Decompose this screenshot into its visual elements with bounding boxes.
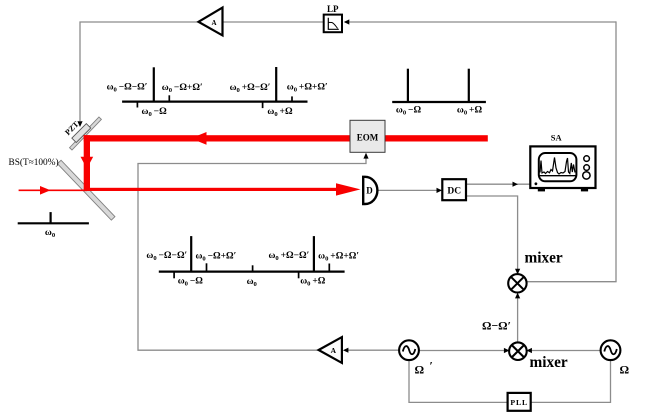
wire: DC output to spectrum analyzer SA [466,182,530,187]
wire: LP output to amplifier A1 [223,21,324,23]
wire: detector D output to DC box [378,188,442,193]
svg-text:ω0 −Ω: ω0 −Ω [178,276,204,287]
detector D (photodiode) [363,177,377,204]
wire: oscillator Omega-prime to mixer M2 left input [419,348,509,353]
beam: laser input thin red beam with arrow [19,186,87,195]
svg-text:mixer: mixer [530,354,568,371]
wire: amplifier A1 output to PZT (left and down) [77,22,198,127]
spectrum analyzer SA [530,133,595,192]
wire: oscillator Omega-prime down to PLL [409,360,507,402]
wire: mixer M1 output to right riser [526,281,617,283]
low-pass filter LP [324,4,342,32]
spectrum B (top-middle, two lines omega0 +/- Omega) [392,69,486,102]
svg-text:BS(T≈100%): BS(T≈100%) [9,157,59,168]
oscillator Omega-prime [399,340,419,360]
wire: PLL to oscillator Omega [531,360,611,402]
svg-text:ω0 −Ω+Ω′: ω0 −Ω+Ω′ [162,83,203,94]
wire: mixer M2 output up to mixer M1 LO input [515,293,520,343]
svg-text:ω0 −Ω+Ω′: ω0 −Ω+Ω′ [195,252,236,263]
mixer M2 (lower) [509,342,527,360]
svg-text:ω0 −Ω: ω0 −Ω [142,107,168,118]
amplifier A1 (top) [199,8,223,36]
wire: right riser from mixer M1 output up to top [615,21,617,281]
svg-text:ω0 +Ω: ω0 +Ω [300,276,326,287]
svg-text:ω0 −Ω−Ω′: ω0 −Ω−Ω′ [146,251,187,262]
DC block box [442,179,466,200]
svg-text:EOM: EOM [357,133,379,143]
svg-text:mixer: mixer [525,249,563,266]
wire: oscillator Omega-prime to amplifier A2 input [343,348,399,353]
svg-text:ω0 −Ω: ω0 −Ω [396,105,422,116]
mixer M1 (upper) [508,274,526,292]
spectrum C (middle, full sideband picture) [159,236,345,278]
svg-text:ω0: ω0 [45,228,56,239]
oscillator Omega [601,340,621,360]
svg-text:ω0 +Ω+Ω′: ω0 +Ω+Ω′ [318,252,359,263]
svg-text:SA: SA [551,133,563,143]
svg-text:D: D [366,186,373,196]
wire: feedback top horizontal from right riser to LP [344,19,616,24]
wire: DC output down to mixer M1 RF input [466,196,520,275]
svg-text:ω0 −Ω−Ω′: ω0 −Ω−Ω′ [107,83,148,94]
svg-text:PLL: PLL [510,398,528,407]
beam: thick red top beam through EOM with left arrow [84,132,488,145]
svg-text:Ω: Ω [415,363,425,377]
svg-text:′: ′ [430,359,433,373]
amplifier A2 (bottom) [319,337,342,363]
svg-text:Ω−Ω′: Ω−Ω′ [482,318,511,332]
svg-text:ω0: ω0 [247,277,258,288]
PLL box [508,393,531,411]
svg-text:LP: LP [327,4,339,14]
spectrum A (top-left, sidebands around omega0 +/- Omega) [122,67,307,108]
svg-text:ω0 +Ω−Ω′: ω0 +Ω−Ω′ [230,83,271,94]
svg-text:ω0 +Ω: ω0 +Ω [267,107,293,118]
EOM modulator box [350,120,385,152]
wire: amplifier A2 output loop to EOM drive input [138,153,369,350]
svg-text:ω0 +Ω−Ω′: ω0 +Ω−Ω′ [268,251,309,262]
svg-text:A: A [211,19,216,27]
svg-text:Ω: Ω [620,363,630,377]
spectrum D (bottom-left, single line omega0) [18,212,89,223]
wire: oscillator Omega to mixer M2 right input [526,348,600,353]
mirror: beamsplitter BS (45 deg) [57,160,115,220]
svg-text:A: A [331,346,337,355]
PZT actuator block on mirror back [72,124,91,143]
mirror: PZT mirror (45 deg) [70,117,102,150]
beam: thick red vertical beam PZT to BS with downward arrow [81,135,94,191]
beam: thick red beam BS to detector D with arrow [85,183,361,195]
svg-text:DC: DC [447,186,461,196]
svg-text:ω0 +Ω+Ω′: ω0 +Ω+Ω′ [287,83,328,94]
svg-text:ω0 +Ω: ω0 +Ω [457,105,483,116]
